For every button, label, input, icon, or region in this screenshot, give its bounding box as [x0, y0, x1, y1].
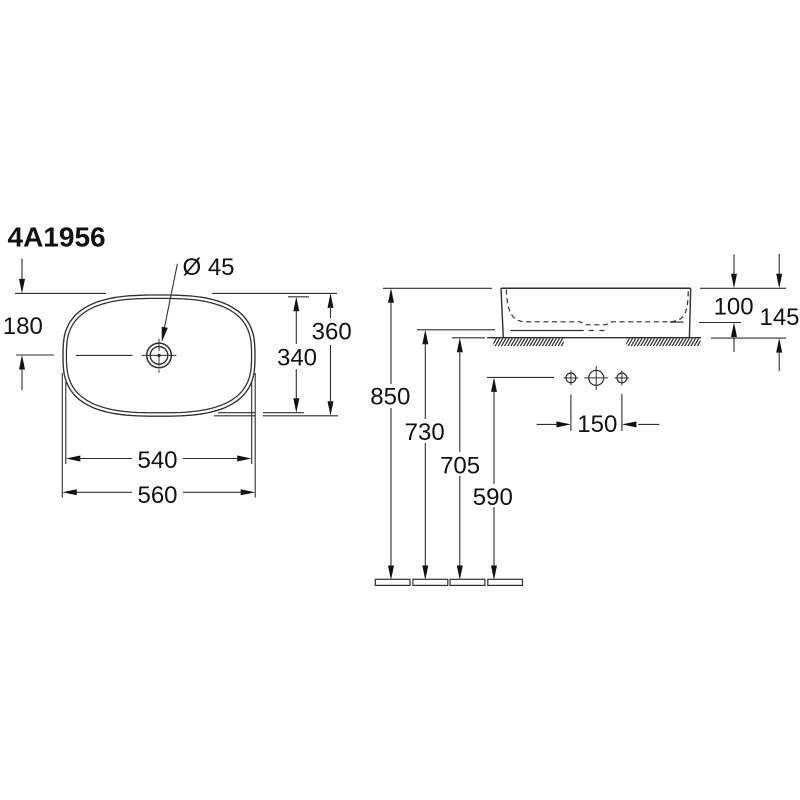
- extension of basin top edge to right: [700, 287, 786, 289]
- dimension 540 (inner oval width): [66, 456, 81, 462]
- basin side view right wall: [689, 288, 690, 338]
- extension line at oval top (left segment): [15, 292, 106, 294]
- extension line at outer oval bottom (right): [263, 415, 338, 417]
- drain centerline dash 2: [599, 330, 604, 332]
- extension line below right hole: [621, 394, 623, 431]
- svg-text:4A1956: 4A1956: [8, 221, 106, 252]
- svg-text:705: 705: [440, 452, 480, 479]
- dimension 360 (outer oval height): [328, 293, 334, 308]
- extension line at oval top (right segment): [212, 292, 337, 294]
- extension line right outer (560): [254, 373, 256, 498]
- faucet hole outer circle: [147, 343, 172, 368]
- svg-text:100: 100: [714, 293, 754, 320]
- extension line right inner (540): [251, 382, 253, 464]
- dimension 590 (faucet hole height): [487, 376, 554, 378]
- dimension 180 (top edge to faucet center): [21, 259, 23, 281]
- reference line inner bowl depth (100): [699, 322, 741, 324]
- extension line left outer (560): [61, 373, 63, 498]
- svg-text:540: 540: [137, 447, 177, 474]
- basin inner bowl profile (dashed): [506, 290, 688, 325]
- svg-text:360: 360: [312, 318, 352, 345]
- floor mark 3: [450, 579, 485, 585]
- basin side view top edge: [501, 287, 691, 289]
- faucet hole center dot: [157, 354, 160, 357]
- inner bottom depth line (right): [670, 321, 684, 323]
- svg-text:145: 145: [759, 304, 799, 331]
- svg-text:180: 180: [3, 313, 43, 340]
- reference tick at inner oval top: [288, 296, 309, 298]
- waterline / bottom surface line inside basin: [511, 330, 584, 332]
- countertop line: [487, 337, 701, 339]
- svg-text:150: 150: [577, 411, 617, 438]
- extension line below left hole: [570, 394, 572, 431]
- floor mark 4: [488, 579, 523, 585]
- svg-text:590: 590: [473, 484, 513, 511]
- oval horizontal centerline dash: [76, 354, 132, 356]
- extension line left inner (540): [65, 382, 67, 464]
- leader line to faucet hole: [163, 264, 177, 334]
- svg-text:Ø 45: Ø 45: [183, 254, 235, 281]
- dimension 730 (underside height): [417, 329, 495, 331]
- faucet hole left (small): [566, 373, 576, 383]
- drain centerline dash 1: [589, 330, 594, 332]
- extension of countertop to right: [711, 337, 786, 339]
- faucet hole crosshair horizontal: [142, 354, 177, 356]
- svg-text:340: 340: [277, 344, 317, 371]
- dimension 560 (outer oval width): [62, 489, 77, 495]
- dimension 850 (basin rim height): [383, 287, 492, 289]
- svg-text:560: 560: [137, 482, 177, 509]
- basin side view left wall: [501, 288, 503, 338]
- svg-text:730: 730: [405, 419, 445, 446]
- faucet hole right (small): [617, 373, 627, 383]
- dimension 145 (total basin height): [778, 254, 780, 275]
- dimension 705 (countertop height): [452, 337, 485, 339]
- basin inner outline (top view oval): [66, 298, 251, 412]
- faucet hole center (large): [589, 370, 604, 385]
- extension line at inner oval bottom (left): [218, 412, 255, 414]
- extension line at outer oval bottom (left): [214, 415, 255, 417]
- extension line at inner oval bottom (right): [263, 412, 304, 414]
- reference line at faucet center height: [16, 354, 54, 356]
- dimension 150 (hole spacing): [537, 423, 558, 425]
- faucet hole inner circle: [150, 347, 168, 365]
- dimension 340 (inner oval height): [293, 297, 299, 312]
- basin outer outline (top view oval): [63, 295, 255, 416]
- floor mark 1: [375, 579, 410, 585]
- svg-text:850: 850: [370, 384, 410, 411]
- floor mark 2: [413, 579, 448, 585]
- dimension 100 (bowl depth): [733, 255, 735, 276]
- faucet hole crosshair vertical (dashed): [158, 339, 160, 351]
